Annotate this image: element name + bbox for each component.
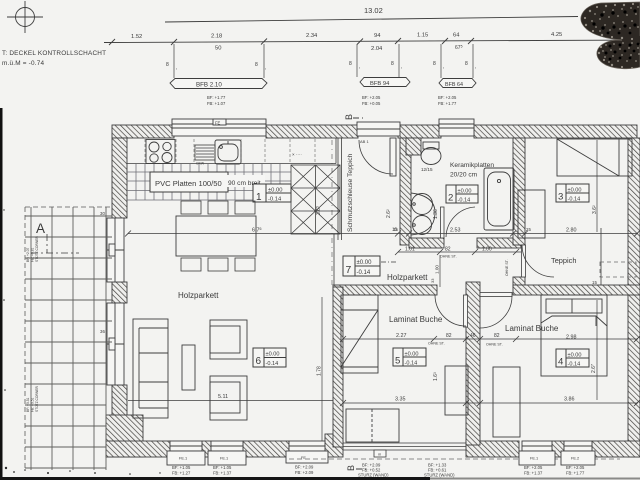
sill dashed line [289,458,620,460]
corridor vertical dim [439,255,441,287]
window BFB64 in top wall [439,119,474,136]
armchair lower [210,376,247,420]
svg-text:BF: +2.05: BF: +2.05 [524,465,543,470]
svg-text:1.00: 1.00 [435,265,440,274]
room3 door leaf [522,245,526,277]
bath corner pier [406,138,421,155]
interior wall hall-left double line [334,138,342,287]
svg-text:STURZ (WAND): STURZ (WAND) [358,472,389,477]
svg-text:1.52: 1.52 [131,34,142,40]
top wall segment right [474,125,637,138]
room tag 3 [556,184,589,202]
sill level notes bottom [172,463,585,478]
top wall segment left [112,125,174,138]
svg-text:FB: +0.51: FB: +0.51 [31,397,35,412]
svg-text:FB: +0.05: FB: +0.05 [362,101,381,106]
svg-text:-0.14: -0.14 [266,361,279,367]
svg-text:46: 46 [470,333,476,339]
svg-text:-0.14: -0.14 [405,361,418,367]
room5 door swing [435,295,466,326]
room4 door swing [480,296,512,328]
svg-text:BF: +2.05: BF: +2.05 [438,95,457,100]
interior dim line mid [128,233,638,235]
dining table [176,216,256,256]
room tag 5 [393,348,426,366]
svg-text:FE.1: FE.1 [530,456,538,461]
bottom wall segments [106,441,170,457]
kitchen window in top wall [172,119,266,136]
svg-text:82: 82 [446,333,452,339]
armchair upper [210,320,247,359]
bottom window 3 [286,441,328,463]
right wall upper [628,138,640,457]
room3 door swing [522,245,554,277]
svg-text:4.25: 4.25 [551,32,562,38]
chairs top row [181,201,255,214]
bottom window 2 [208,441,246,465]
svg-text:FE.1: FE.1 [220,456,228,461]
svg-text:3.86: 3.86 [564,397,575,403]
svg-text:8: 8 [255,62,258,68]
left wall window upper [107,218,124,282]
bottom window 5 [561,441,595,465]
svg-text:Holzparkett: Holzparkett [387,273,428,282]
wall bath/room3 [513,138,525,245]
hall cupboard x-grid [291,165,340,234]
scan edge left [0,108,3,480]
sill level notes top [207,95,457,106]
svg-text:T: DECKEL KONTROLLSCHACHT: T: DECKEL KONTROLLSCHACHT [2,50,106,57]
butterfly [581,2,640,69]
svg-text:BF: +0.51: BF: +0.51 [26,397,30,412]
toilet [421,142,441,165]
extension lines to window symbols [174,44,473,78]
room4 vertical dim [596,300,598,400]
svg-text:8: 8 [465,61,468,67]
svg-text:Schmutzschleuse Teppich: Schmutzschleuse Teppich [347,153,354,232]
entrance door leaf [390,138,396,176]
room tag 4 [556,349,589,367]
scan speckles [3,209,161,475]
svg-text:2.27: 2.27 [396,333,407,339]
svg-text:BFB 94: BFB 94 [370,81,390,87]
svg-text:94: 94 [374,33,381,39]
svg-text:-0.14: -0.14 [268,197,282,203]
svg-text:64: 64 [453,33,460,39]
svg-text:2.80: 2.80 [566,228,577,234]
terrace note upper rotated [26,236,39,262]
svg-text:× ····: × ···· [292,152,302,157]
svg-text:1.78: 1.78 [317,366,323,376]
svg-text:,: , [475,64,476,70]
room5 dresser [346,409,399,442]
svg-text:8: 8 [433,61,436,67]
svg-text:,: , [265,65,266,71]
top wall segment right of door [398,125,441,138]
terrace tile grid [25,207,112,470]
svg-text:5.11: 5.11 [218,394,228,400]
svg-text:6: 6 [256,356,262,367]
room3 vertical dim [596,140,598,232]
scan edge bottom [0,477,430,480]
entrance door swing [359,140,393,174]
left wall lower [112,385,127,457]
svg-text:±0.00: ±0.00 [568,188,582,194]
svg-text:1.36: 1.36 [433,209,439,219]
svg-text:3.6²: 3.6² [592,205,598,214]
svg-text:B: B [344,114,354,120]
dimension ticks [109,39,115,45]
window symbol BFB 64 [439,79,476,89]
mid horizontal wall west [333,285,437,295]
svg-text:2.04: 2.04 [371,46,383,52]
section line B dashed [331,140,333,287]
svg-text:FE.2: FE.2 [571,456,579,461]
svg-text:15: 15 [592,280,597,285]
svg-text:33: 33 [430,278,435,283]
svg-text:8: 8 [166,62,169,68]
dimension values [131,32,562,52]
90 cm breit label [227,175,265,187]
svg-text:2.53: 2.53 [450,228,461,234]
svg-text:-0.14: -0.14 [458,198,471,204]
svg-text:FE.1: FE.1 [179,456,187,461]
room4 wardrobe [493,367,520,437]
bottom window 1 [167,441,205,465]
svg-text:±0.00: ±0.00 [266,352,280,358]
svg-text:1.00: 1.00 [482,247,492,253]
vertical dim line living east [321,297,323,441]
window symbol BFB 94 [360,78,410,88]
terrace dashed boundary [25,207,112,470]
svg-text:,: , [176,65,177,71]
window symbol BFB 2.10 [170,79,267,89]
svg-text:FB: +1.27: FB: +1.27 [172,471,191,476]
svg-text:OHNE ST.: OHNE ST. [505,259,509,276]
svg-text:2.18: 2.18 [211,34,222,40]
rooms dim line upper [343,338,638,340]
bathtub [484,168,514,230]
bath door swing [446,207,475,237]
svg-text:,: , [359,64,360,70]
svg-text:FB: +1.07: FB: +1.07 [207,101,226,106]
terrace east boundary line [105,207,107,470]
svg-text:FB: +1.37: FB: +1.37 [524,471,543,476]
svg-text:A: A [36,221,45,236]
rooms dim line lower [343,402,638,404]
svg-text:Laminat Buche: Laminat Buche [389,315,443,324]
main dimension chain line [104,40,640,43]
bath south wall segments [409,238,521,248]
svg-text:36: 36 [100,329,105,334]
coffee table [182,345,195,390]
svg-text:BF: +2.05: BF: +2.05 [566,465,585,470]
bath door leaf [441,207,445,238]
sofa [133,319,168,418]
svg-text:BF: +1.05: BF: +1.05 [172,465,191,470]
svg-text:1: 1 [256,192,262,203]
svg-text:Teppich: Teppich [551,256,576,265]
svg-text:,: , [443,64,444,70]
svg-text:±0.00: ±0.00 [268,188,282,194]
wall living/room5 vertical [333,287,343,447]
svg-text:FB: +2.09: FB: +2.09 [295,470,314,475]
svg-text:5: 5 [395,356,400,367]
svg-text:B: B [346,465,356,471]
room3 bed [557,139,632,176]
svg-text:BF: +2.07: BF: +2.07 [26,247,30,262]
room3 closet edge [600,228,602,285]
svg-text:OKW: OKW [196,162,205,166]
svg-text:STÜTZ CORNER: STÜTZ CORNER [35,386,39,412]
svg-text:-0.14: -0.14 [357,270,371,276]
svg-text:,: , [401,64,402,70]
svg-text:3.35: 3.35 [395,397,406,403]
PVC label box [150,172,228,192]
room4 bed [541,295,607,376]
svg-text:3: 3 [558,192,563,203]
room4 door leaf [480,293,512,297]
living dim line [128,400,333,402]
room tag 1 [253,184,291,202]
svg-text:13.02: 13.02 [364,6,383,15]
svg-text:2: 2 [448,193,453,204]
svg-text:50: 50 [215,46,221,52]
svg-text:m.ü.M = -0.74: m.ü.M = -0.74 [2,60,44,67]
counter division dashes [145,139,315,163]
svg-text:BF: +1.77: BF: +1.77 [207,95,226,100]
washbasins [411,193,435,235]
stove [146,140,175,164]
control shaft symbol [16,8,35,27]
svg-text:4: 4 [558,357,564,368]
svg-text:BF: +2.09: BF: +2.09 [295,465,314,470]
svg-text:STURZ (WAND): STURZ (WAND) [424,472,455,477]
svg-text:OHNE ST.: OHNE ST. [428,342,445,346]
bottom-left corner block [106,415,143,457]
svg-text:±0.00: ±0.00 [458,189,472,195]
corridor dim line [398,251,521,253]
terrace door sill [343,443,466,457]
svg-text:7: 7 [346,265,352,276]
room5 door leaf [464,295,468,327]
overall dimension 13.02 [165,17,578,23]
svg-text:1.6³: 1.6³ [433,372,439,381]
wall room5/room4 vertical [466,282,480,445]
svg-text:8: 8 [349,61,352,67]
svg-text:±0.00: ±0.00 [568,353,582,359]
svg-text:AB 1: AB 1 [360,139,369,144]
left wall upper [112,138,127,218]
svg-text:Laminat Buche: Laminat Buche [505,324,559,333]
svg-text:12/15: 12/15 [421,167,433,172]
room tag 6 [253,348,286,367]
terrace centerline mark [31,234,79,253]
svg-text:OHNE ST.: OHNE ST. [486,343,503,347]
svg-text:BFB 64: BFB 64 [445,82,463,88]
left wall window lower [107,303,124,385]
svg-text:2.6²: 2.6² [386,209,392,218]
svg-text:8: 8 [391,61,394,67]
svg-text:30: 30 [100,211,105,216]
kitchen counter outline [127,138,336,164]
svg-text:PVC Platten 100/50: PVC Platten 100/50 [155,179,222,188]
terrace note lower rotated [26,386,39,412]
room tag 2 [446,185,478,203]
svg-text:±0.00: ±0.00 [357,260,373,266]
left wall middle pier [112,282,127,303]
roller blind marks [166,61,476,71]
svg-text:2.98: 2.98 [566,335,577,341]
svg-text:15: 15 [393,227,398,232]
sink [215,140,241,164]
svg-text:STÜTZ CORNER: STÜTZ CORNER [35,236,39,262]
room3 side table [518,190,545,238]
svg-text:OHNE ST.: OHNE ST. [440,255,457,259]
svg-text:2.34: 2.34 [306,33,318,39]
svg-text:±0.00: ±0.00 [405,352,419,358]
entrance door sill box [357,122,400,136]
top wall segment mid [266,125,358,138]
svg-text:82: 82 [445,247,451,253]
room5 bed [341,295,378,373]
svg-text:FB: +1.77: FB: +1.77 [438,101,457,106]
kitchen floor tiles [127,164,291,200]
svg-text:-0.14: -0.14 [568,197,581,203]
svg-text:m: m [378,452,381,457]
svg-text:BFB 2.10: BFB 2.10 [196,82,222,89]
bottom window 4 [519,441,555,465]
svg-text:BF: +2.05: BF: +2.05 [362,95,381,100]
svg-text:25: 25 [526,227,531,232]
svg-text:BF: +1.05: BF: +1.05 [213,465,232,470]
svg-text:-0.14: -0.14 [568,362,581,368]
mid horizontal wall east [513,285,640,295]
svg-text:82: 82 [494,333,500,339]
svg-text:1.15: 1.15 [417,33,428,39]
svg-text:20/20 cm: 20/20 cm [450,172,478,179]
room3 dashed cupboard [600,262,636,277]
interior wall hall/bath [400,138,411,245]
svg-text:FE: FE [215,121,221,126]
svg-text:FB: +1.77: FB: +1.77 [566,471,585,476]
svg-text:FB: +0.81: FB: +0.81 [31,247,35,262]
chairs bottom row [181,258,255,271]
room tag 7 [343,256,380,276]
room5 closet [445,366,468,415]
svg-text:Holzparkett: Holzparkett [178,291,219,300]
svg-text:FB: +1.37: FB: +1.37 [213,471,232,476]
svg-text:1.01: 1.01 [405,247,415,253]
dishwasher [195,145,215,160]
wall pier below room3 door [513,277,525,287]
